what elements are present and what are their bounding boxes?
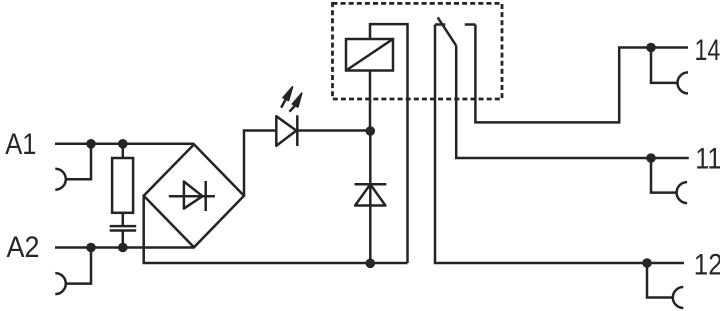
node terminal 14 junction [646,43,656,53]
freewheel diode D2 triangle [355,184,385,205]
resistor R1 [112,158,133,213]
wire 11 to clamp [651,158,677,193]
wire NO contact 14 path [475,25,688,123]
clamp terminal 12 [673,287,684,308]
relay enclosure dashed box [333,3,503,99]
node terminal 11 junction [646,153,656,163]
node A2-capacitor junction [118,243,128,253]
svg-text:11: 11 [695,143,720,176]
clamp terminal A2 [55,273,66,294]
svg-text:A2: A2 [7,231,40,264]
LED D1 cathode bar [296,115,299,146]
node bottom rail junction [366,259,376,269]
freewheel diode D2 cathode bar [355,183,387,186]
clamp terminal 14 [678,72,689,93]
wire 12 to clamp [647,263,673,298]
switch NC fixed contact tick [435,23,445,26]
wire resistor to capacitor [122,213,125,226]
clamp terminal 11 [677,182,688,203]
bridge internal diode triangle [184,182,203,209]
wire capacitor bottom lead [122,231,125,248]
wire A1 to clamp [66,144,91,179]
LED emission arrow 2 [289,106,295,112]
node A2-clamp junction [86,243,96,253]
wire A1 row [55,143,194,146]
wire NC contact 12 path [435,25,684,264]
relay coil diagonal [346,39,393,71]
wire LED cathode to coil node [297,129,370,132]
clamp terminal A1 [55,169,66,190]
wire coil bottom lead [369,71,372,131]
svg-text:12: 12 [694,248,720,281]
LED D1 triangle [276,116,296,146]
node A1-clamp junction [86,139,96,149]
wire A2 to clamp [66,248,91,284]
LED emission arrow 1 [281,99,286,108]
wire diode column [369,131,372,264]
svg-text:14: 14 [695,34,720,67]
svg-text:A1: A1 [5,128,36,161]
node LED/coil junction [366,126,376,136]
wire bridge right corner up to LED row [244,131,276,196]
bridge internal diode cathode bar [204,181,207,211]
bridge internal diode lead [169,195,215,198]
node A1-resistor junction [118,139,128,149]
node terminal 12 junction [642,258,652,268]
switch movable contact arm [438,17,457,45]
wire resistor top lead [122,144,125,158]
wire 14 to clamp [651,48,678,83]
relay coil K1 [346,39,393,71]
capacitor C1 [110,225,137,228]
wire coil top lead routed right and down to rail [370,24,408,263]
wire bridge left corner to bottom rail [144,196,408,263]
bridge rectifier diamond [144,144,244,247]
wire A2 row [55,246,194,249]
wire common contact 11 path [456,46,689,158]
switch NO fixed contact tick [465,23,476,26]
